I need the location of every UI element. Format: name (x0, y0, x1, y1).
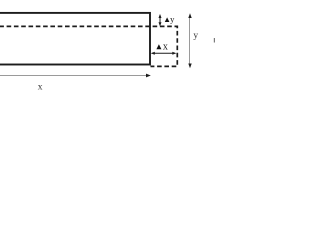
dimension arrow Δx (horizontal double arrow between solid right edge and dashed right edge) (151, 52, 177, 55)
label Δy (solid triangle + y) (165, 14, 175, 24)
svg-text:y: y (170, 14, 175, 24)
dimension arrow Δy (vertical double arrow between solid top and dashed top) (159, 14, 162, 27)
partial glyph cut off at right image edge (214, 38, 215, 43)
label Δx (solid triangle + x) (156, 42, 168, 53)
y dimension line (right, double arrow vertical) (188, 13, 191, 68)
deformed bar (dashed outline: top edge, right edge, bottom segment) (0, 26, 177, 66)
svg-text:x: x (38, 83, 43, 93)
svg-text:y: y (193, 31, 198, 41)
x dimension line (bottom, arrow to the right, cut off at left) (0, 74, 151, 78)
original bar (solid rectangle, cut off at left edge) (0, 13, 150, 65)
svg-text:x: x (163, 42, 168, 53)
